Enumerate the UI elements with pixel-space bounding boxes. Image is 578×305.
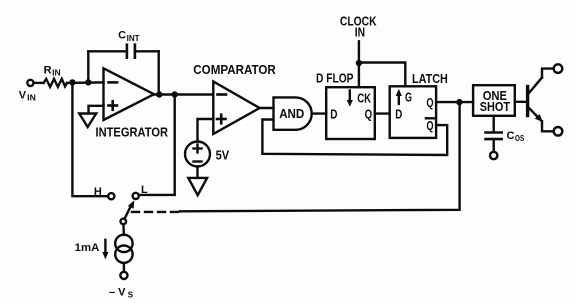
ground (integrator): [79, 114, 96, 128]
current source 1mA: [115, 235, 132, 252]
D flop box: [326, 87, 375, 139]
node E (clock junction): [356, 60, 362, 66]
COS terminal: [490, 152, 497, 159]
switch L terminal: [133, 193, 139, 199]
svg-text:5V: 5V: [216, 149, 230, 163]
wire D flop Q to latch D: [375, 112, 390, 114]
terminal -VS: [120, 272, 127, 279]
ground (5V source): [188, 178, 207, 195]
wire CINT down to output node: [157, 51, 159, 94]
label CLOCK IN: [340, 14, 377, 39]
wire 5V to ground: [196, 167, 198, 178]
wire U1 output to comparator: [154, 93, 213, 95]
node D (to switch L): [172, 91, 178, 97]
minus sign U2: [218, 93, 227, 96]
arrow 1mA direction: [102, 240, 108, 260]
input terminal VIN: [27, 80, 33, 86]
svg-text:AND: AND: [279, 107, 304, 121]
op-amp U1 integrator: [104, 68, 155, 120]
plus sign U1: [109, 101, 118, 110]
svg-text:D: D: [395, 107, 402, 121]
svg-text:IN: IN: [355, 26, 365, 40]
wire U2 output to AND: [260, 107, 274, 109]
node A (input node): [69, 79, 75, 85]
wire one shot to transistor base: [515, 101, 527, 103]
svg-text:OS: OS: [515, 134, 525, 143]
svg-text:D: D: [330, 108, 337, 122]
svg-text:S: S: [128, 290, 134, 299]
svg-text:R: R: [44, 65, 52, 77]
node C (integrator output): [156, 91, 162, 97]
switch H terminal: [108, 193, 114, 199]
label VIN: [19, 90, 36, 103]
one shot box: [473, 85, 515, 116]
label CINT: [118, 30, 140, 43]
emitter terminal: [554, 127, 563, 136]
wire clock to D flop CK: [358, 63, 360, 87]
label Q-bar (latch): [426, 118, 434, 133]
svg-text:IN: IN: [52, 69, 61, 78]
source 5V: [185, 142, 210, 167]
node F (Q node): [456, 99, 462, 105]
wire latch Q-bar feedback to AND: [262, 120, 447, 156]
collector terminal: [554, 64, 563, 73]
wire node A down to switch H: [72, 82, 108, 196]
wire latch Q to one shot: [436, 101, 473, 103]
op-amp U2 comparator: [213, 82, 259, 135]
svg-text:LATCH: LATCH: [412, 72, 448, 86]
svg-text:Q: Q: [426, 119, 433, 133]
label -VS: [109, 286, 134, 299]
plus sign U2: [217, 115, 226, 124]
wire dashed to switch arm: [126, 211, 178, 213]
svg-text:L: L: [141, 184, 148, 196]
wire node B up to CINT: [87, 51, 89, 82]
wire one shot to COS: [493, 116, 495, 132]
svg-text:C: C: [507, 130, 515, 142]
resistor RIN: [44, 79, 67, 87]
minus sign U1: [109, 81, 118, 84]
wire Q node down to switch (solid part): [180, 102, 460, 211]
svg-text:– V: – V: [109, 286, 126, 298]
svg-text:INT: INT: [127, 34, 140, 43]
svg-text:C: C: [118, 30, 126, 42]
svg-text:1mA: 1mA: [75, 242, 100, 254]
G arrow (latch): [396, 89, 402, 104]
svg-text:COMPARATOR: COMPARATOR: [193, 63, 275, 77]
wire COS to terminal: [493, 139, 495, 152]
svg-text:CK: CK: [357, 92, 371, 106]
AND gate: [274, 97, 312, 129]
wire clock to latch G: [359, 63, 405, 87]
latch box: [390, 86, 436, 138]
wire VIN to RIN: [34, 82, 44, 84]
svg-text:G: G: [405, 91, 412, 105]
label RIN: [44, 65, 61, 78]
wire node D down to switch L: [139, 95, 175, 195]
svg-text:IN: IN: [27, 94, 36, 103]
wire current source to -VS terminal: [123, 263, 125, 272]
wire CLOCK IN down: [358, 41, 360, 63]
svg-text:V: V: [19, 90, 27, 102]
switch pivot circle: [121, 219, 127, 225]
svg-text:H: H: [94, 186, 102, 198]
svg-text:SHOT: SHOT: [480, 100, 511, 114]
svg-text:D FLOP: D FLOP: [316, 72, 354, 86]
wire AND output to D flop: [312, 112, 327, 114]
node B (summing junction): [85, 79, 91, 85]
svg-text:Q: Q: [426, 96, 433, 110]
label COS: [507, 130, 525, 143]
switch arm S1: [124, 200, 134, 219]
capacitor CINT: [88, 45, 158, 58]
svg-text:Q: Q: [365, 108, 373, 122]
wire pivot to current source: [122, 224, 125, 235]
wire U1 plus input to ground: [89, 106, 104, 113]
wire U2 plus to 5V source: [198, 119, 214, 142]
transistor Q1: [528, 69, 554, 132]
wire RIN to op-amp minus input: [67, 81, 104, 84]
capacitor COS: [486, 133, 502, 140]
svg-text:INTEGRATOR: INTEGRATOR: [96, 125, 169, 139]
label ONE SHOT: [480, 89, 511, 114]
CK arrow (D flop): [347, 91, 353, 107]
